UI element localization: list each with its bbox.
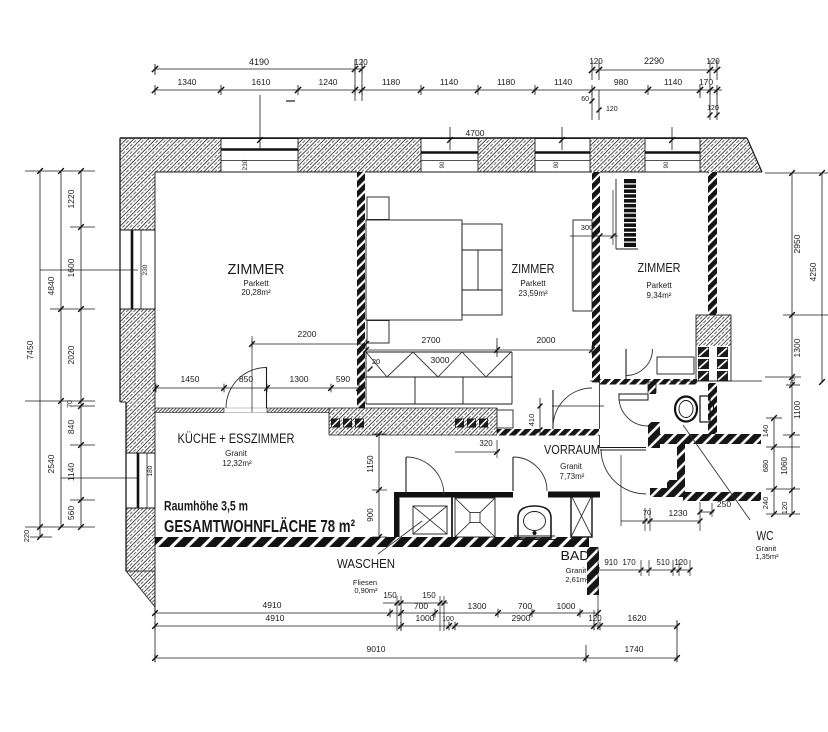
svg-text:Parkett: Parkett (646, 281, 672, 290)
svg-text:120: 120 (674, 558, 688, 567)
svg-text:1300: 1300 (468, 601, 487, 611)
svg-text:VORRAUM: VORRAUM (544, 442, 600, 457)
svg-text:680: 680 (761, 460, 770, 473)
svg-text:BAD: BAD (561, 548, 590, 563)
svg-text:980: 980 (614, 77, 628, 87)
svg-text:510: 510 (656, 558, 670, 567)
svg-text:1150: 1150 (366, 455, 375, 473)
svg-text:1610: 1610 (252, 77, 271, 87)
svg-text:4700: 4700 (466, 128, 485, 138)
svg-text:WC: WC (757, 529, 774, 543)
svg-text:KÜCHE + ESSZIMMER: KÜCHE + ESSZIMMER (178, 431, 295, 446)
svg-text:0,90m²: 0,90m² (354, 586, 378, 595)
svg-text:1600: 1600 (66, 258, 76, 277)
svg-text:320: 320 (479, 439, 493, 448)
svg-text:1220: 1220 (66, 189, 76, 208)
svg-text:WASCHEN: WASCHEN (337, 556, 395, 571)
svg-text:23,59m²: 23,59m² (518, 289, 548, 298)
svg-text:70: 70 (790, 377, 797, 385)
svg-text:4910: 4910 (266, 613, 285, 623)
svg-text:70: 70 (67, 400, 74, 408)
svg-text:1340: 1340 (178, 77, 197, 87)
svg-text:850: 850 (239, 374, 253, 384)
svg-text:4250: 4250 (808, 262, 818, 281)
svg-text:180: 180 (147, 465, 154, 476)
svg-text:9,34m²: 9,34m² (647, 291, 672, 300)
svg-text:120: 120 (606, 106, 618, 113)
svg-text:230: 230 (142, 264, 149, 275)
svg-text:1000: 1000 (557, 601, 576, 611)
svg-text:ZIMMER: ZIMMER (228, 262, 285, 278)
svg-text:90: 90 (554, 161, 560, 168)
svg-text:120: 120 (706, 57, 720, 66)
svg-text:1100: 1100 (792, 401, 802, 420)
svg-text:2,61m²: 2,61m² (565, 575, 589, 584)
svg-text:2540: 2540 (46, 454, 56, 473)
svg-text:3000: 3000 (431, 355, 450, 365)
svg-text:2290: 2290 (644, 56, 664, 66)
svg-text:2020: 2020 (66, 345, 76, 364)
svg-text:170: 170 (622, 558, 636, 567)
svg-text:170: 170 (699, 77, 713, 87)
svg-text:140: 140 (761, 425, 770, 438)
svg-text:ZIMMER: ZIMMER (512, 261, 555, 276)
svg-text:ZIMMER: ZIMMER (638, 260, 681, 275)
svg-text:1240: 1240 (319, 77, 338, 87)
svg-text:910: 910 (604, 558, 618, 567)
svg-text:240: 240 (761, 497, 770, 510)
svg-text:7,73m²: 7,73m² (560, 472, 585, 481)
svg-text:300: 300 (581, 223, 594, 232)
svg-text:2000: 2000 (537, 335, 556, 345)
svg-text:60: 60 (581, 96, 589, 103)
svg-text:1450: 1450 (181, 374, 200, 384)
svg-text:560: 560 (66, 506, 76, 520)
svg-text:1300: 1300 (290, 374, 309, 384)
svg-text:Parkett: Parkett (520, 279, 546, 288)
svg-text:1300: 1300 (792, 338, 802, 357)
svg-text:9010: 9010 (367, 644, 386, 654)
svg-text:70: 70 (643, 508, 651, 517)
svg-text:2200: 2200 (298, 329, 317, 339)
svg-text:1140: 1140 (440, 77, 459, 87)
svg-text:12,32m²: 12,32m² (222, 459, 252, 468)
svg-text:Granit: Granit (566, 566, 587, 575)
svg-text:230: 230 (242, 159, 249, 170)
svg-text:120: 120 (707, 105, 719, 112)
svg-text:1140: 1140 (664, 77, 683, 87)
svg-text:4190: 4190 (249, 57, 269, 67)
svg-text:90: 90 (440, 161, 446, 168)
svg-text:20,28m²: 20,28m² (241, 288, 271, 297)
svg-text:700: 700 (414, 601, 428, 611)
svg-text:1140: 1140 (554, 77, 573, 87)
svg-text:1230: 1230 (669, 508, 688, 518)
svg-text:120: 120 (588, 614, 602, 623)
svg-text:120: 120 (780, 502, 789, 515)
svg-text:7450: 7450 (25, 340, 35, 359)
svg-text:4910: 4910 (263, 600, 282, 610)
svg-text:1000: 1000 (416, 613, 435, 623)
svg-text:Granit: Granit (560, 462, 583, 471)
svg-text:700: 700 (518, 601, 532, 611)
svg-text:220: 220 (22, 530, 31, 543)
svg-text:Raumhöhe 3,5 m: Raumhöhe 3,5 m (164, 499, 248, 514)
svg-text:90: 90 (664, 161, 670, 168)
svg-text:120: 120 (354, 58, 368, 67)
svg-text:150: 150 (422, 591, 436, 600)
svg-text:1180: 1180 (382, 77, 401, 87)
svg-text:900: 900 (366, 508, 375, 522)
svg-text:840: 840 (66, 420, 76, 434)
svg-text:2700: 2700 (422, 335, 441, 345)
svg-text:1,35m²: 1,35m² (755, 552, 779, 561)
svg-text:590: 590 (336, 374, 350, 384)
svg-text:410: 410 (527, 414, 536, 427)
svg-text:GESAMTWOHNFLÄCHE 78 m²: GESAMTWOHNFLÄCHE 78 m² (164, 516, 355, 536)
svg-text:100: 100 (442, 616, 454, 623)
svg-text:1180: 1180 (497, 77, 516, 87)
svg-text:Granit: Granit (225, 449, 248, 458)
svg-text:250: 250 (717, 499, 731, 509)
svg-text:2900: 2900 (512, 613, 531, 623)
svg-text:1620: 1620 (628, 613, 647, 623)
svg-text:120: 120 (589, 57, 603, 66)
svg-text:1060: 1060 (780, 457, 789, 475)
svg-text:20: 20 (372, 357, 380, 366)
svg-text:Parkett: Parkett (243, 279, 269, 288)
svg-text:1740: 1740 (625, 644, 644, 654)
svg-text:4840: 4840 (46, 276, 56, 295)
svg-text:150: 150 (383, 591, 397, 600)
svg-text:2950: 2950 (792, 234, 802, 253)
